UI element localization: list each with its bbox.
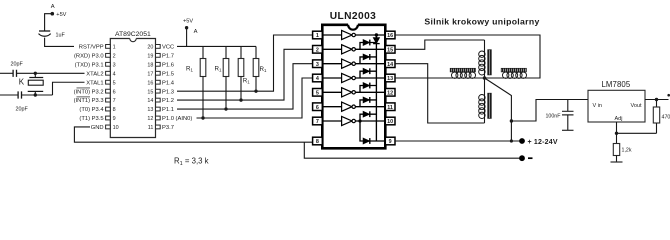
wire to XTAL1	[22, 82, 85, 95]
winding L-bottom core	[488, 93, 492, 118]
wire Adj	[617, 122, 657, 133]
capacitor C1 1uF (electrolytic)	[39, 30, 50, 32]
svg-text:16: 16	[147, 80, 153, 86]
wire P1.3 to ULN pin1	[177, 35, 313, 91]
svg-text:GND: GND	[91, 125, 104, 131]
pin 3 box	[313, 60, 323, 68]
svg-text:1: 1	[316, 33, 319, 39]
node +12-24V terminal	[519, 138, 525, 144]
svg-text:(RXD) P3.0: (RXD) P3.0	[74, 53, 104, 59]
SECTION: wires AT89 to ULN	[74, 35, 312, 142]
driver U2 ULN2003	[313, 11, 395, 148]
pin 13 box	[385, 74, 395, 82]
svg-text:13: 13	[387, 76, 393, 82]
SECTION: crystal	[0, 62, 85, 113]
svg-text:XTAL2: XTAL2	[86, 71, 103, 77]
SECTION: bottom label	[174, 157, 209, 168]
wire Vin branch	[511, 100, 588, 122]
resistor R3 1,2k	[616, 133, 618, 143]
pin 8 box	[313, 137, 323, 145]
winding L-top core	[488, 50, 492, 75]
wire C2 to XTAL2	[17, 72, 85, 74]
svg-text:8: 8	[113, 107, 116, 113]
svg-text:6: 6	[316, 105, 319, 111]
node Vout junction	[655, 98, 658, 101]
node minus terminal	[519, 155, 525, 161]
svg-text:470: 470	[662, 115, 670, 121]
pin 4 box	[106, 71, 111, 75]
wire ULN pin14 to bottom winding	[395, 64, 485, 123]
svg-text:K: K	[19, 77, 25, 86]
svg-text:AT89C2051: AT89C2051	[115, 31, 151, 38]
svg-text:VCC: VCC	[162, 45, 174, 51]
svg-text:P1.5: P1.5	[162, 71, 174, 77]
svg-text:P1.4: P1.4	[162, 80, 175, 86]
svg-text:P1.3: P1.3	[162, 89, 174, 95]
svg-text:19: 19	[147, 53, 153, 59]
svg-text:8: 8	[316, 139, 319, 145]
pin 7 box	[106, 98, 111, 102]
svg-text:5: 5	[316, 91, 319, 97]
overline INT0	[77, 87, 91, 89]
wire Vout	[645, 99, 669, 101]
pin 2 box	[106, 53, 111, 57]
svg-text:20pF: 20pF	[11, 62, 24, 68]
SECTION: AT89C2051	[74, 31, 193, 137]
svg-text:10: 10	[387, 119, 393, 125]
pin 10 box	[106, 125, 111, 129]
svg-text:+5V: +5V	[56, 12, 66, 18]
svg-text:P3.7: P3.7	[162, 125, 174, 131]
svg-text:10: 10	[113, 125, 119, 131]
svg-text:P1.1: P1.1	[162, 107, 174, 113]
svg-text:(INT0) P3.2: (INT0) P3.2	[74, 89, 104, 95]
pin 18 box	[156, 62, 161, 66]
node R-P1.2	[239, 98, 242, 101]
svg-text:(TXD) P3.1: (TXD) P3.1	[75, 62, 104, 68]
svg-text:15: 15	[387, 48, 393, 54]
op-amp buffer channel 4	[322, 77, 341, 79]
SECTION: motor	[395, 16, 540, 141]
svg-text:4: 4	[316, 76, 319, 82]
svg-text:LM7805: LM7805	[602, 80, 631, 89]
pin 13 box	[156, 107, 161, 111]
node Adj junction	[615, 132, 618, 135]
node crystal-top junction	[34, 72, 37, 75]
pin 15 box	[156, 89, 161, 93]
svg-text:1uF: 1uF	[56, 33, 66, 39]
op-amp buffer channel 5	[322, 91, 341, 93]
diode D4 channel 4	[360, 71, 376, 78]
pin 11 box	[156, 125, 161, 129]
node rail top	[375, 33, 378, 36]
svg-text:(T0) P3.4: (T0) P3.4	[79, 107, 104, 113]
wire P1.0 to ULN pin4	[197, 78, 313, 118]
svg-text:18: 18	[147, 62, 153, 68]
svg-text:14: 14	[147, 98, 153, 104]
svg-text:Vout: Vout	[630, 103, 641, 109]
diode D6 channel 6	[360, 100, 376, 107]
svg-text:(INT1) P3.3: (INT1) P3.3	[74, 98, 104, 104]
capacitor C4 100nF	[567, 100, 569, 112]
inductor L-top (stator winding)	[484, 40, 486, 78]
pin 8 box	[106, 107, 111, 111]
wire VCC rail +5V	[177, 45, 256, 47]
svg-text:P1.2: P1.2	[162, 98, 174, 104]
op-amp buffer channel 6	[322, 106, 341, 108]
svg-text:V in: V in	[593, 103, 602, 109]
wire C1 to RST/VPP pin1	[45, 38, 74, 47]
pin 12 box	[156, 116, 161, 120]
diode D8 (to pin 9)	[360, 121, 385, 141]
wire GND from AT89 pin10 to ULN pin8	[74, 127, 312, 142]
pin 19 box	[156, 53, 161, 57]
diode D2 channel 2	[360, 43, 376, 50]
pin 11 box	[385, 103, 395, 111]
wire ULN pin13 to left winding	[395, 77, 446, 79]
resistor R2 470	[656, 100, 658, 108]
pin 5 box	[106, 80, 111, 84]
resistor R1 pullup 4	[255, 46, 257, 58]
svg-text:(T1) P3.5: (T1) P3.5	[79, 116, 103, 122]
SECTION: regulator	[510, 80, 670, 162]
node R-P1.1	[224, 107, 227, 110]
svg-text:6: 6	[113, 89, 116, 95]
wire P1.2 to ULN pin2	[177, 49, 313, 100]
svg-text:P1.6: P1.6	[162, 62, 174, 68]
svg-text:3: 3	[316, 62, 319, 68]
op-amp buffer channel 7	[322, 120, 341, 122]
inductor L-right (stator winding)	[485, 77, 541, 79]
pin 1 box	[106, 45, 111, 49]
wire +12-24V rail (ULN pin9)	[395, 140, 522, 142]
inductor L-bottom (stator winding)	[484, 78, 486, 123]
node R-P1.3	[254, 89, 257, 92]
svg-text:9: 9	[389, 139, 392, 145]
pin 4 box	[313, 74, 323, 82]
svg-text:12: 12	[387, 91, 393, 97]
pin 16 box	[385, 31, 395, 39]
svg-text:100nF: 100nF	[545, 114, 561, 120]
svg-text:ULN2003: ULN2003	[330, 11, 376, 22]
svg-text:9: 9	[113, 116, 116, 122]
node Vin branch tee	[510, 119, 513, 122]
svg-text:16: 16	[387, 33, 393, 39]
pin 1 box	[313, 31, 323, 39]
svg-text:20pF: 20pF	[16, 107, 29, 113]
pin 2 box	[313, 46, 323, 54]
node rail/center-tap junction	[510, 139, 513, 142]
node crystal-bottom junction	[34, 93, 37, 96]
svg-text:12: 12	[147, 116, 153, 122]
pin 6 box	[106, 89, 111, 93]
winding L-right coil	[503, 72, 509, 78]
pin 5 box	[313, 89, 323, 97]
wire P1.1 to ULN pin3	[177, 64, 313, 109]
svg-text:4: 4	[113, 71, 116, 77]
pin 15 box	[385, 46, 395, 54]
svg-text:1: 1	[113, 45, 116, 51]
pin 12 box	[385, 89, 395, 97]
svg-text:A: A	[51, 4, 55, 10]
svg-text:5: 5	[113, 80, 116, 86]
diode D7 channel 7	[360, 114, 376, 121]
pin 7 box	[313, 117, 323, 125]
node +5V (resistors)	[186, 28, 188, 47]
svg-text:17: 17	[147, 71, 153, 77]
pin 9 box	[385, 137, 395, 145]
diode D1 (vertical, ch1)	[373, 38, 379, 44]
svg-text:A: A	[194, 29, 198, 35]
svg-text:2: 2	[113, 53, 116, 59]
svg-text:R1 = 3,3 k: R1 = 3,3 k	[174, 157, 209, 168]
wire ULN pin15 to top winding	[395, 40, 485, 49]
pin 6 box	[313, 103, 323, 111]
resistor R1 pullup 2	[225, 46, 227, 58]
winding L-bottom coil	[479, 95, 485, 101]
SECTION: ULN2003	[313, 11, 395, 148]
svg-text:11: 11	[148, 125, 154, 131]
wire GND rail to minus terminal	[304, 142, 522, 158]
node +5V junction dot	[51, 12, 55, 16]
svg-text:11: 11	[387, 105, 393, 111]
microcontroller U1 AT89C2051	[74, 31, 193, 137]
svg-text:Adj: Adj	[615, 116, 623, 122]
overline INT1	[77, 96, 91, 98]
svg-text:+5V: +5V	[183, 19, 193, 25]
svg-text:15: 15	[147, 89, 153, 95]
svg-text:RST/VPP: RST/VPP	[79, 45, 104, 51]
svg-text:20: 20	[147, 45, 153, 51]
resistor R1 pullup 3	[240, 46, 242, 58]
svg-text:7: 7	[113, 98, 116, 104]
pin 14 box	[156, 98, 161, 102]
pin 10 box	[385, 117, 395, 125]
winding L-right core	[501, 68, 526, 72]
svg-text:+ 12-24V: + 12-24V	[528, 139, 558, 146]
winding L-top coil	[479, 51, 485, 57]
svg-text:13: 13	[147, 107, 153, 113]
svg-text:Silnik krokowy unipolarny: Silnik krokowy unipolarny	[424, 16, 539, 26]
SECTION: power rails	[304, 138, 558, 161]
node R-P1.0	[201, 116, 204, 119]
capacitor C3 20pF (bottom)	[0, 94, 18, 96]
wire COM rail	[375, 35, 377, 141]
pin 3 box	[106, 62, 111, 66]
svg-text:XTAL1: XTAL1	[86, 80, 103, 86]
inductor L-left (stator winding)	[446, 77, 485, 79]
wire ULN pin16 to right winding	[395, 35, 540, 78]
node ch7 output junction	[358, 119, 361, 122]
op-amp buffer channel 2	[322, 48, 341, 50]
SECTION: pull-up resistors	[177, 19, 267, 118]
op-amp buffer channel 1	[322, 34, 341, 36]
svg-text:7: 7	[316, 119, 319, 125]
pin 16 box	[156, 80, 161, 84]
wire center tap to +12-24V rail	[485, 78, 512, 141]
op-amp buffer channel 3	[322, 63, 341, 65]
wire +5V to C1	[45, 14, 53, 31]
svg-text:P1.7: P1.7	[162, 53, 174, 59]
pin 14 box	[385, 60, 395, 68]
svg-text:3: 3	[113, 62, 116, 68]
svg-text:1,2k: 1,2k	[622, 148, 632, 154]
winding L-left core	[450, 68, 475, 72]
SECTION: top-left +5V supply to RST	[39, 4, 75, 46]
resistor R1 pullup 1	[202, 46, 204, 58]
pin 20 box	[156, 45, 161, 49]
svg-text:P1.0 (AIN0): P1.0 (AIN0)	[162, 116, 192, 122]
winding L-left coil	[452, 72, 458, 78]
pin 17 box	[156, 71, 161, 75]
diode D3 channel 3	[360, 57, 376, 64]
svg-text:14: 14	[387, 62, 393, 68]
node motor center tap	[483, 76, 487, 80]
node output terminal mark	[667, 94, 670, 97]
diode D5 channel 5	[360, 86, 376, 93]
svg-text:2: 2	[316, 48, 319, 54]
pin 9 box	[106, 116, 111, 120]
